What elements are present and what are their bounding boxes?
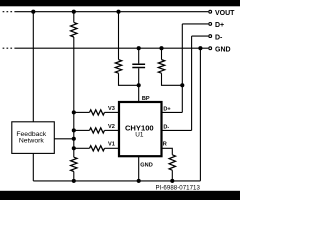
wire GND rail [14, 47, 208, 49]
wire GND rail right drop [199, 48, 201, 181]
terminal D+ [209, 23, 212, 26]
terminal GND [209, 47, 212, 50]
wire V2 pin [74, 129, 90, 131]
junction GND/right drop [198, 46, 202, 50]
junction bottom rail/GND pin [137, 179, 141, 183]
wire GND rail to capacitor [138, 48, 140, 63]
wire capacitor to BP pin [138, 68, 140, 102]
svg-text:BP: BP [142, 96, 150, 102]
resistor VOUT-BP [115, 60, 121, 74]
svg-text:VOUT: VOUT [215, 10, 235, 17]
svg-text:D-: D- [215, 34, 223, 41]
resistor V3 [90, 110, 105, 115]
resistor R pin [169, 155, 175, 170]
svg-text:D+: D+ [163, 106, 171, 112]
wire U1 GND pin [138, 156, 140, 181]
junction bus/V3 [72, 110, 76, 114]
wire V2 resistor to U1 [105, 129, 120, 131]
svg-text:V3: V3 [108, 106, 115, 112]
wire bus to bottom rail [73, 172, 75, 181]
wire VOUT rail [14, 11, 208, 13]
terminal D- [209, 35, 212, 38]
wire feedback box top drop [32, 12, 34, 122]
svg-text:GND: GND [140, 162, 152, 168]
junction VOUT/divider [72, 10, 76, 14]
resistor V2 [90, 128, 105, 133]
svg-text:V2: V2 [108, 124, 115, 130]
junction VOUT/BP resistor [116, 10, 120, 14]
top border bar [0, 0, 240, 6]
svg-text:V1: V1 [108, 142, 115, 148]
junction bottom rail/bus [72, 179, 76, 183]
wire bottom rail [33, 180, 200, 182]
resistor divider top [71, 22, 77, 37]
resistor D+ pull [158, 60, 164, 74]
svg-text:D+: D+ [215, 22, 224, 29]
junction bottom rail/R resistor [170, 179, 174, 183]
wire GND rail dashed stub [3, 47, 13, 49]
wire left divider bus upper [73, 12, 75, 23]
wire U1 D- pin [162, 129, 192, 131]
svg-text:D-: D- [163, 124, 169, 130]
wire D+ vertical [181, 24, 183, 113]
svg-text:U1: U1 [135, 131, 144, 138]
wire resistor to BP node [119, 73, 139, 85]
junction bus/V1 [72, 146, 76, 150]
wire D- vertical [191, 36, 193, 130]
wire D+ terminal lead [182, 23, 208, 25]
junction GND/capacitor [137, 46, 141, 50]
wire pull resistor to D+ node [162, 73, 183, 85]
wire VOUT to bypass resistor [118, 12, 120, 60]
junction VOUT/feedback [31, 10, 35, 14]
wire VOUT rail dashed stub [3, 11, 13, 13]
feedback network box [12, 122, 55, 154]
capacitor BP [132, 64, 145, 67]
wire D- terminal lead [192, 35, 209, 37]
svg-text:GND: GND [215, 46, 231, 53]
wire feedback box bottom drop [32, 153, 34, 181]
svg-text:R: R [163, 142, 167, 148]
svg-text:PI-6988-071713: PI-6988-071713 [156, 184, 201, 191]
junction bus/feedback [72, 137, 76, 141]
resistor divider bottom [71, 157, 77, 171]
bottom border bar [0, 191, 240, 200]
wire left divider bus lower [73, 37, 75, 157]
wire V1 pin [74, 147, 90, 149]
junction D+ node [180, 83, 184, 87]
wire U1 D+ pin [162, 111, 183, 113]
junction BP node [137, 83, 141, 87]
wire GND rail to D+ pull resistor [161, 48, 163, 59]
junction bus/V2 [72, 128, 76, 132]
wire R resistor to bottom rail [171, 170, 173, 181]
op-amp U1 CHY100 box [119, 102, 162, 156]
wire feedback network to bus [54, 138, 74, 140]
wire V3 pin [74, 111, 90, 113]
svg-text:Network: Network [19, 138, 45, 145]
wire V3 resistor to U1 [105, 111, 120, 113]
junction GND/pull resistor [159, 46, 163, 50]
resistor V1 [90, 146, 105, 151]
wire U1 R pin [162, 148, 173, 155]
wire V1 resistor to U1 [105, 147, 120, 149]
terminal VOUT [209, 10, 212, 13]
